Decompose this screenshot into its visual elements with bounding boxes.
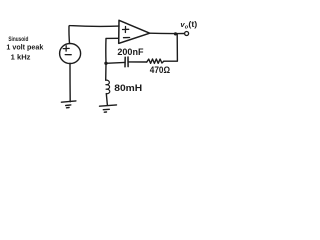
svg-text:470Ω: 470Ω bbox=[150, 65, 170, 75]
svg-text:80mH: 80mH bbox=[114, 82, 142, 93]
svg-text:200nF: 200nF bbox=[117, 47, 143, 57]
svg-text:1 kHz: 1 kHz bbox=[11, 55, 31, 62]
svg-text:1 volt peak: 1 volt peak bbox=[6, 44, 43, 51]
svg-text:(t): (t) bbox=[188, 20, 197, 29]
svg-text:Sinusoid: Sinusoid bbox=[8, 36, 28, 43]
